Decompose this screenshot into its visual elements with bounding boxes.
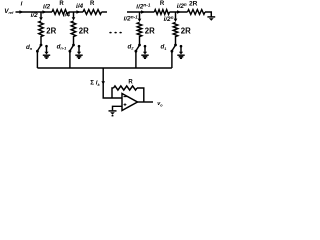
svg-text:2R: 2R: [79, 27, 89, 36]
svg-text:i/4: i/4: [76, 3, 84, 10]
current arrow down branch 2: [72, 17, 76, 20]
svg-text:R: R: [90, 1, 95, 7]
wire op-amp output: [138, 101, 154, 103]
svg-text:R: R: [59, 1, 64, 7]
current arrow down branch 1: [39, 17, 43, 20]
resistor 2R branch 2: [71, 21, 76, 37]
switch contact dot branch 2: [69, 50, 72, 53]
switch lever branch 1: [38, 46, 41, 51]
svg-text:2R: 2R: [145, 27, 155, 36]
svg-text:2R: 2R: [181, 27, 191, 36]
resistor 2R terminating: [188, 10, 206, 15]
current arrow i/2^n-1 after node C: [141, 10, 145, 14]
svg-text:2R: 2R: [46, 27, 56, 36]
wire switch 1 to bus: [36, 52, 38, 68]
wire top rail segment 2: [69, 11, 84, 13]
current arrow i/4 after node B: [76, 10, 80, 14]
ground contact branch 2: [78, 45, 81, 48]
op-amp plus sign: [124, 104, 127, 106]
wire switch 4 to bus: [171, 52, 173, 68]
switch contact dot branch 1: [36, 50, 39, 53]
wire to terminating ground: [205, 12, 211, 17]
current arrow i: [19, 10, 23, 14]
svg-text:i: i: [21, 1, 23, 8]
current arrow sum: [101, 81, 105, 84]
wire branch 3 from rail: [139, 12, 141, 19]
switch contact dot branch 3: [135, 50, 138, 53]
op-amp U1: [122, 94, 138, 111]
svg-text:i/2: i/2: [43, 3, 51, 10]
svg-text:R: R: [128, 79, 133, 85]
resistor R3: [154, 10, 169, 15]
svg-text:i/2: i/2: [31, 12, 39, 19]
ground contact branch 3: [144, 45, 147, 48]
ground contact branch 4: [180, 45, 183, 48]
switch pole dot branch 4: [174, 44, 177, 47]
resistor 2R branch 4: [173, 22, 178, 36]
switch lever branch 2: [70, 46, 73, 51]
wire bus drop to op-amp input: [103, 68, 122, 98]
ground op-amp: [109, 110, 117, 112]
wire branch 2 to switch pole: [73, 36, 75, 44]
switch pole dot branch 1: [40, 44, 43, 47]
wire switch 3 to bus: [135, 52, 137, 68]
wire top rail segment 3: [102, 11, 108, 13]
svg-text:R: R: [160, 1, 165, 7]
wire top rail segment 5: [170, 11, 188, 13]
wire branch 2 from rail: [73, 12, 75, 17]
wire branch 4 from rail: [175, 12, 177, 19]
resistor 2R branch 1: [39, 21, 44, 37]
ellipsis continuation dots: [109, 32, 111, 34]
switch lever branch 3: [136, 46, 139, 51]
resistor R2: [83, 10, 102, 15]
wire branch 4 to switch pole: [175, 36, 177, 44]
current arrow i/2^n after node D: [177, 10, 181, 14]
op-amp minus sign: [124, 96, 127, 98]
wire branch 1 from rail: [40, 12, 42, 17]
wire branch 1 to switch pole: [40, 36, 42, 44]
wire top rail segment 4: [127, 11, 154, 13]
ground terminating: [207, 16, 215, 18]
wire feedback left: [112, 88, 114, 98]
wire noninverting input: [113, 106, 123, 110]
current arrow down branch 3: [138, 19, 142, 22]
current arrow i/2 after node A: [42, 10, 46, 14]
wire branch 3 to switch pole: [139, 36, 141, 44]
switch lever branch 4: [172, 46, 175, 51]
ground contact branch 1: [45, 45, 48, 48]
wire summing bus: [37, 67, 172, 69]
resistor R1: [52, 10, 69, 15]
switch contact dot branch 4: [171, 50, 174, 53]
wire feedback right: [137, 88, 144, 102]
resistor R feedback: [114, 86, 138, 90]
current arrow down branch 4: [174, 19, 178, 22]
resistor 2R branch 3: [137, 22, 142, 36]
switch pole dot branch 2: [72, 44, 75, 47]
switch pole dot branch 3: [138, 44, 141, 47]
svg-text:i/4: i/4: [63, 12, 71, 19]
svg-text:2R: 2R: [189, 1, 198, 8]
wire switch 2 to bus: [69, 52, 71, 68]
wire top rail segment 1: [16, 11, 53, 13]
